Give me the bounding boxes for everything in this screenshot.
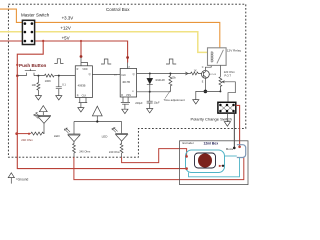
svg-text:LED: LED bbox=[54, 134, 61, 138]
transistor Q1 bbox=[202, 70, 210, 78]
svg-text:Q: Q bbox=[89, 73, 91, 76]
svg-text:CLK: CLK bbox=[82, 94, 87, 97]
arrow on output wire bbox=[185, 72, 188, 75]
ground bbox=[35, 96, 41, 100]
svg-text:240 Ohm: 240 Ohm bbox=[109, 150, 121, 154]
resistor 240 Ohm under LED D2 bbox=[73, 142, 76, 158]
svg-text:Master Switch: Master Switch bbox=[21, 13, 50, 18]
svg-text:10K: 10K bbox=[32, 83, 37, 87]
wire red LED feed bbox=[17, 133, 31, 135]
wire red polarity switch to motor bbox=[236, 105, 240, 146]
svg-text:1N4148: 1N4148 bbox=[155, 78, 165, 82]
capacitor C1 under IC2 bbox=[121, 97, 130, 109]
svg-text:BC548: BC548 bbox=[209, 74, 216, 76]
wire red feed to push button bus bbox=[17, 41, 186, 169]
resistor 240 Ohm under LED D3 bbox=[120, 141, 123, 157]
master switch bbox=[22, 20, 34, 44]
syringe holder cyan box bbox=[186, 150, 225, 173]
plunger dark circle bbox=[198, 154, 212, 168]
svg-text:C: C bbox=[202, 66, 204, 69]
svg-text:VDD: VDD bbox=[82, 68, 87, 71]
svg-text:+3.3V: +3.3V bbox=[62, 16, 74, 21]
resistor 100K bbox=[44, 74, 54, 77]
ground under IC1 bbox=[79, 98, 88, 108]
pulse waveform 3 bbox=[166, 59, 176, 64]
resistor 10K vertical bbox=[37, 76, 40, 96]
resistor 15k vertical bbox=[169, 74, 172, 92]
svg-text:220 Ohm: 220 Ohm bbox=[224, 70, 236, 74]
ground bbox=[147, 109, 153, 113]
resistor 1K base bbox=[191, 72, 202, 75]
svg-text:Control Box: Control Box bbox=[106, 7, 130, 12]
counter IC U2 4017B bbox=[120, 69, 136, 98]
svg-text:Time adjustment: Time adjustment bbox=[164, 98, 185, 102]
node B bbox=[58, 75, 60, 77]
wire timing bottom bbox=[137, 91, 171, 93]
svg-text:12V Relay: 12V Relay bbox=[227, 49, 242, 53]
wire red C from LED D2 resistor to motor bbox=[74, 157, 244, 179]
push button SW2 bbox=[25, 69, 36, 76]
wire red VDD stub IC1 bbox=[80, 41, 82, 58]
ground bbox=[193, 100, 199, 104]
op-amp U1 oscillator IC 4093B bbox=[75, 66, 92, 98]
capacitor C2 220uF under diode bbox=[147, 92, 153, 109]
node red terminal bottom bbox=[185, 167, 188, 170]
LED driver bus bbox=[74, 121, 122, 123]
motor M1 clamp bbox=[237, 145, 246, 158]
wire black polarity switch to motor bbox=[233, 113, 235, 148]
svg-text:4017B: 4017B bbox=[122, 80, 130, 84]
pulse waveform 2 bbox=[101, 59, 111, 64]
wiper wire to polarity switch bbox=[223, 82, 236, 103]
svg-text:100K: 100K bbox=[45, 79, 51, 83]
cyan wire loop bottom bbox=[189, 158, 240, 177]
node black junction bbox=[222, 165, 224, 167]
svg-text:240 Ohm: 240 Ohm bbox=[21, 138, 33, 142]
wire emitter to ground bbox=[196, 91, 206, 99]
svg-text:240 Ohm: 240 Ohm bbox=[79, 149, 91, 153]
wire emitter to POT bottom bbox=[205, 89, 220, 92]
svg-text:0.1: 0.1 bbox=[62, 83, 66, 87]
polarity change switch bbox=[218, 102, 236, 113]
LED D1 status stack left bbox=[39, 106, 47, 112]
wire VDD stub black into IC1 bbox=[81, 58, 87, 66]
svg-text:+12V: +12V bbox=[60, 26, 70, 31]
svg-text:220µF: 220µF bbox=[135, 101, 143, 105]
LED D3 right bbox=[121, 122, 123, 134]
svg-text:VSS: VSS bbox=[126, 94, 131, 97]
wire collector to relay bbox=[205, 65, 211, 70]
svg-text:=Ground: =Ground bbox=[16, 178, 29, 182]
LED D2 left bbox=[73, 122, 75, 135]
node emitter junction bbox=[204, 90, 208, 94]
wire emitter bbox=[204, 78, 206, 92]
cyan wire to motor bbox=[225, 155, 237, 157]
svg-text:R: R bbox=[77, 94, 79, 97]
node diode top bbox=[149, 73, 151, 75]
svg-text:1K: 1K bbox=[194, 69, 197, 73]
node red terminal top bbox=[185, 155, 188, 158]
resistor 240 Ohm LED D1 bbox=[31, 132, 44, 135]
relay K1 box bbox=[208, 48, 227, 66]
node A bbox=[37, 75, 39, 77]
wire +5V red rail bbox=[0, 41, 128, 63]
svg-text:Polarity Change Switch: Polarity Change Switch bbox=[191, 117, 232, 122]
relay contact bbox=[217, 50, 224, 64]
svg-text:R: R bbox=[121, 94, 123, 97]
svg-text:Motor: Motor bbox=[226, 147, 234, 151]
control box dashed boundary bbox=[8, 4, 245, 157]
svg-text:10µF: 10µF bbox=[154, 101, 160, 105]
syringe body bbox=[195, 153, 216, 168]
wire LED D1 to resistor bbox=[43, 123, 45, 133]
wire red B from LED D3 resistor to extruder bbox=[122, 149, 187, 163]
svg-text:Push Button: Push Button bbox=[19, 63, 46, 68]
svg-text:Q: Q bbox=[133, 73, 135, 76]
pulse waveform 1 bbox=[54, 59, 63, 64]
svg-text:12ml Box: 12ml Box bbox=[204, 141, 219, 145]
buffer triangle bbox=[92, 106, 102, 116]
capacitor 0.1 bbox=[56, 76, 62, 96]
svg-text:15k: 15k bbox=[172, 75, 177, 79]
svg-text:4093B: 4093B bbox=[78, 84, 86, 88]
red arrow marker bbox=[219, 165, 222, 167]
svg-text:CLK: CLK bbox=[121, 74, 126, 77]
relay coil bbox=[211, 52, 213, 62]
potentiometer 220 Ohm bbox=[219, 77, 222, 92]
extruder assembly box bbox=[180, 141, 249, 185]
wire +3.3V orange rail bbox=[0, 9, 220, 48]
ground legend bbox=[10, 178, 12, 184]
svg-text:R: R bbox=[77, 68, 79, 71]
wire IC1 to IC2 bbox=[92, 73, 120, 75]
svg-text:+5V: +5V bbox=[62, 35, 70, 40]
wire push button row bbox=[17, 75, 75, 77]
diode D1 1N4148 bbox=[149, 74, 151, 79]
svg-text:P.O.T: P.O.T bbox=[224, 74, 231, 78]
wire IC2 output bbox=[137, 73, 191, 75]
node junction on +5V rail bbox=[42, 40, 44, 42]
svg-text:LED: LED bbox=[102, 135, 109, 139]
ground bbox=[56, 96, 62, 100]
ground under polarity switch bbox=[226, 113, 228, 122]
ground bbox=[122, 109, 128, 113]
wire red stub into IC2 pin14 bbox=[127, 63, 129, 69]
wire +12V yellow rail bbox=[0, 32, 208, 53]
svg-text:Extruder: Extruder bbox=[183, 141, 194, 145]
